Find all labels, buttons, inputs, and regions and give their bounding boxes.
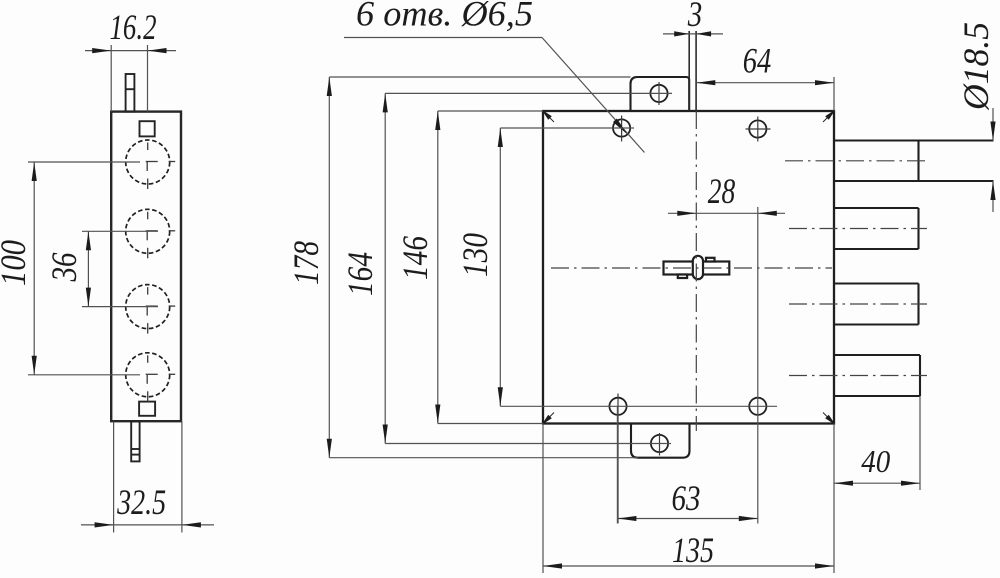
- dimension 100 (left view hole spacing): [28, 162, 140, 375]
- bolt 1 centre line: [785, 160, 927, 162]
- slot 3mm stem line (main view): [689, 31, 696, 111]
- bolt hole circle 1 (left view): [126, 140, 176, 189]
- svg-text:16.2: 16.2: [110, 7, 157, 47]
- bolt 2 (main view): [834, 208, 919, 249]
- horizontal centre line of body: [551, 267, 832, 269]
- svg-text:64: 64: [743, 41, 772, 81]
- corner mark bottom-right: [823, 413, 834, 424]
- screw hole 6 (bottom tab): [651, 433, 668, 456]
- dimension dia 18.5 (bolt diameter): [992, 108, 994, 212]
- top mounting tab (main view): [631, 77, 690, 111]
- svg-text:3: 3: [687, 0, 702, 34]
- dimension 146 (body height): [438, 111, 543, 424]
- screw hole 1 (top tab): [650, 82, 667, 105]
- bolt hole circle 2 (left view): [126, 209, 176, 258]
- top latch rod (left view): [126, 74, 135, 112]
- dimension 40 (bolt length): [834, 396, 920, 490]
- vertical centre line of body: [695, 111, 697, 431]
- svg-text:178: 178: [286, 241, 326, 285]
- bolt 1 (main view): [834, 141, 994, 182]
- bottom stop pin square (left view): [139, 402, 155, 416]
- bolt hole circle 3 (left view): [126, 285, 176, 334]
- svg-text:100: 100: [0, 240, 33, 286]
- corner mark top-left: [543, 111, 554, 122]
- leader 6 holes dia 6.5: [344, 38, 645, 153]
- faceplate outline (left view): [111, 112, 181, 422]
- svg-text:28: 28: [708, 171, 736, 211]
- dimension 130 (screw hole rows): [500, 128, 777, 406]
- dimension 32.5 (bottom of left view): [81, 421, 214, 532]
- bolt 2 centre line: [789, 228, 927, 230]
- lock body outline (main view): [543, 111, 834, 424]
- screw hole 2 (top left, leader target): [613, 116, 630, 142]
- bolt 3 (main view): [834, 284, 919, 325]
- bolt 4 centre line: [789, 375, 927, 377]
- screw hole 5 (bottom right): [749, 398, 766, 415]
- dimension 3 (slot width): [663, 33, 723, 35]
- svg-text:Ø18.5: Ø18.5: [956, 22, 996, 111]
- svg-text:130: 130: [455, 233, 495, 277]
- bottom latch rod (left view): [131, 421, 139, 461]
- key cam at body centre: [664, 256, 730, 279]
- corner mark bottom-left: [543, 413, 554, 424]
- svg-text:146: 146: [395, 236, 435, 280]
- bottom mounting tab (main view): [631, 424, 690, 458]
- dimension 135 (body width): [543, 424, 834, 574]
- top stop pin square (left view): [140, 121, 155, 136]
- dimension 64 (centre to right edge): [696, 77, 834, 111]
- corner mark top-right: [823, 111, 834, 122]
- dimension 16.2 (top of left view): [85, 45, 176, 112]
- svg-text:63: 63: [672, 478, 701, 518]
- bolt 4 (main view): [834, 355, 920, 396]
- svg-text:32.5: 32.5: [116, 482, 166, 522]
- svg-text:164: 164: [340, 252, 380, 296]
- bolt hole circle 4 (left view): [126, 353, 176, 402]
- svg-text:6 отв. Ø6,5: 6 отв. Ø6,5: [356, 0, 533, 34]
- svg-text:135: 135: [672, 530, 714, 570]
- dimension 36 (left view middle holes): [82, 231, 158, 306]
- dimension 164 (tab hole spacing): [385, 93, 672, 443]
- dimension 28 (centre to hole column): [668, 207, 785, 524]
- svg-text:40: 40: [861, 443, 890, 479]
- screw hole 3 (top right): [746, 117, 771, 142]
- bolt 3 centre line: [789, 303, 927, 305]
- dimension 63 (bottom hole spacing): [617, 406, 757, 523]
- screw hole 4 (bottom left): [609, 394, 626, 524]
- svg-text:36: 36: [44, 253, 84, 283]
- dimension 178 (overall height): [329, 77, 638, 458]
